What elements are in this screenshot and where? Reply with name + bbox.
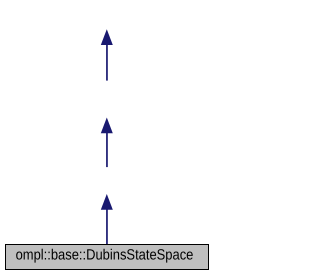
arrow 1 (top inheritance arrow) <box>101 29 113 80</box>
node box ompl::base::DubinsStateSpace <box>6 245 209 270</box>
arrow 2 (middle inheritance arrow) <box>101 118 113 168</box>
svg-text:ompl::base::DubinsStateSpace: ompl::base::DubinsStateSpace <box>16 248 194 264</box>
inheritance graph for ompl::base::DubinsStateSpace <box>0 0 213 276</box>
arrow 3 (bottom inheritance arrow) <box>101 194 113 244</box>
